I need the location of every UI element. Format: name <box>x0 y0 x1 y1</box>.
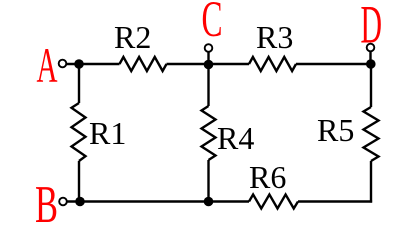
wire bottom: B junction to R6 <box>63 200 249 202</box>
svg-text:R1: R1 <box>89 115 126 151</box>
wire top: R2 to C junction <box>167 63 209 65</box>
svg-text:B: B <box>35 176 58 234</box>
wire middle: C junction down to R4 <box>207 64 209 106</box>
wire right: R5 to bottom right corner <box>370 161 372 203</box>
resistor R3 <box>249 57 296 71</box>
junction at node A <box>74 59 84 69</box>
junction at node C <box>204 60 214 70</box>
wire top: R3 to D junction <box>296 63 371 65</box>
svg-text:R3: R3 <box>256 19 293 55</box>
wire bottom: R6 to bottom right corner <box>298 200 372 202</box>
junction at node B <box>75 197 85 207</box>
resistor R4 <box>202 106 216 160</box>
terminal A <box>59 60 67 68</box>
svg-text:R2: R2 <box>114 19 151 55</box>
junction bottom middle <box>204 197 214 207</box>
resistor R6 <box>249 195 298 209</box>
terminal D <box>367 44 375 52</box>
terminal C <box>205 44 213 52</box>
svg-text:A: A <box>37 37 58 93</box>
wire left: R1 to B junction <box>78 161 80 202</box>
svg-text:D: D <box>361 0 383 55</box>
svg-text:R5: R5 <box>317 112 354 148</box>
wire right: D junction down to R5 <box>370 64 372 107</box>
wire stub: D terminal to junction <box>369 48 371 65</box>
svg-text:R4: R4 <box>217 120 254 156</box>
wire middle: R4 to bottom junction <box>207 160 209 202</box>
wire top: A junction to R2 <box>63 63 120 65</box>
resistor R2 <box>120 57 167 71</box>
svg-text:R6: R6 <box>249 159 286 195</box>
wire stub: C terminal to junction <box>207 48 209 64</box>
wire top: C junction to R3 <box>209 63 250 65</box>
resistor R5 <box>364 107 379 161</box>
terminal B <box>59 198 67 206</box>
wire left: A junction down to R1 <box>78 64 80 103</box>
resistor R1 <box>72 103 86 161</box>
svg-text:C: C <box>202 0 223 48</box>
junction at node D <box>366 59 376 69</box>
